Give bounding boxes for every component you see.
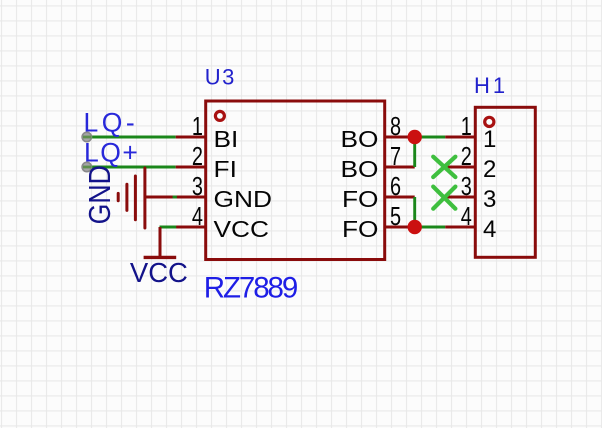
svg-text:GND: GND <box>83 165 117 224</box>
no-connect X on H1 pin 2 <box>433 157 455 177</box>
wire U3 pin 8 to H1 pin 1 <box>415 136 446 139</box>
U3 pin 3 GND <box>176 172 272 213</box>
wire GND symbol to U3 pin 3 <box>173 196 177 199</box>
svg-text:8: 8 <box>390 112 401 141</box>
svg-text:LQ-: LQ- <box>84 108 139 138</box>
IC U3 body <box>206 101 385 260</box>
U3 pin 2 FI <box>176 142 237 183</box>
svg-text:4: 4 <box>483 216 496 243</box>
junction at U3 pin 5 <box>408 220 422 234</box>
svg-text:6: 6 <box>390 172 401 201</box>
H1 pin 2 <box>445 142 496 183</box>
header H1 body <box>475 107 535 257</box>
wire end marker on LQ+ <box>82 162 91 171</box>
H1 pin 1 <box>445 112 496 153</box>
svg-text:1: 1 <box>192 112 203 141</box>
svg-text:7: 7 <box>390 142 401 171</box>
U3 pin 8 BO <box>340 112 414 153</box>
svg-text:4: 4 <box>461 202 472 231</box>
svg-text:2: 2 <box>192 142 203 171</box>
wire U3 pin 6 to U3 pin 5 <box>413 197 416 227</box>
U3 pin-1 indicator circle <box>215 111 224 120</box>
svg-text:4: 4 <box>192 202 203 231</box>
svg-text:VCC: VCC <box>214 216 270 242</box>
svg-text:RZ7889: RZ7889 <box>204 271 298 304</box>
svg-text:H1: H1 <box>474 73 508 98</box>
svg-text:FI: FI <box>214 156 237 182</box>
H1 pin 4 <box>445 202 496 243</box>
svg-text:3: 3 <box>461 172 472 201</box>
U3 pin 6 FO <box>342 172 415 213</box>
svg-text:FO: FO <box>342 216 379 242</box>
svg-text:5: 5 <box>390 202 401 231</box>
svg-text:BO: BO <box>340 156 378 182</box>
U3 pin 7 BO <box>340 142 414 183</box>
no-connect X on H1 pin 3 <box>433 187 455 209</box>
svg-text:2: 2 <box>483 156 496 183</box>
svg-text:FO: FO <box>342 186 379 212</box>
svg-text:GND: GND <box>214 186 272 212</box>
VCC symbol <box>144 227 177 257</box>
wire LQ- net to U3 pin 1 <box>85 136 176 139</box>
svg-text:VCC: VCC <box>130 257 188 288</box>
wire U3 pin 5 to H1 pin 4 <box>415 226 446 229</box>
wire end marker on LQ- <box>82 132 91 141</box>
svg-text:1: 1 <box>461 112 472 141</box>
H1 pin 3 <box>445 172 496 213</box>
wire VCC symbol to U3 pin 4 <box>160 226 177 229</box>
svg-text:1: 1 <box>483 126 496 153</box>
svg-text:LQ+: LQ+ <box>84 138 139 168</box>
U3 pin 4 VCC <box>176 202 269 243</box>
U3 pin 5 FO <box>342 202 415 243</box>
wire LQ+ net to U3 pin 2 <box>85 166 176 169</box>
svg-text:U3: U3 <box>205 65 236 90</box>
svg-text:BO: BO <box>340 126 378 152</box>
svg-text:3: 3 <box>483 186 496 213</box>
wire U3 pin 8 to U3 pin 7 <box>413 137 416 167</box>
U3 pin 1 BI <box>176 112 239 153</box>
GND symbol <box>118 168 176 228</box>
junction at U3 pin 8 <box>408 130 422 144</box>
H1 pin-1 indicator circle <box>485 117 494 126</box>
svg-text:3: 3 <box>192 172 203 201</box>
svg-text:2: 2 <box>461 142 472 171</box>
svg-text:BI: BI <box>214 126 239 152</box>
